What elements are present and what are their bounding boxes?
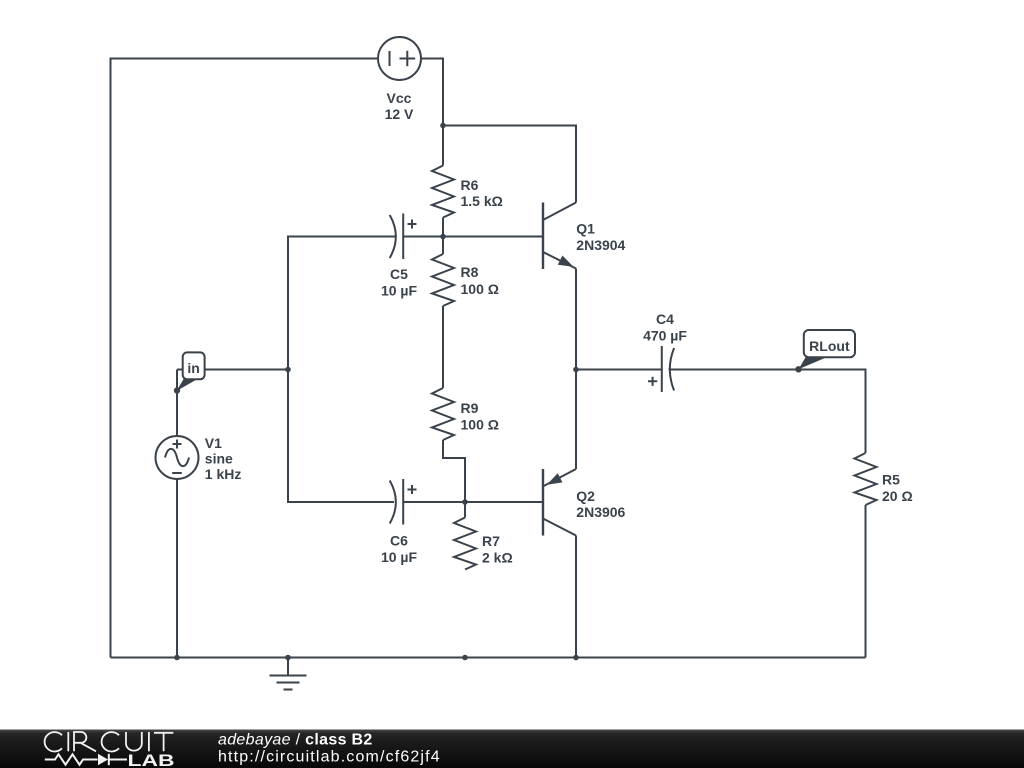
svg-text:adebayae / class B2: adebayae / class B2: [218, 732, 373, 749]
wire: [403, 236, 543, 238]
node junction output emitters: [573, 367, 579, 373]
label Q2 2N3906: [576, 488, 625, 520]
label C5 10 µF: [381, 266, 418, 299]
footer bar: [0, 730, 1024, 768]
label R6 1.5 kΩ: [461, 177, 503, 209]
svg-text:C5: C5: [390, 266, 408, 282]
wire: [443, 440, 465, 518]
svg-text:Q2: Q2: [576, 488, 595, 504]
wire: [575, 536, 577, 658]
node flag in: [174, 352, 205, 393]
wire: [669, 370, 866, 454]
resistor R9: [432, 388, 454, 440]
wire: [177, 369, 288, 371]
wire: [575, 370, 577, 470]
svg-text:R5: R5: [882, 472, 900, 488]
svg-text:R8: R8: [461, 264, 479, 280]
svg-text:10 µF: 10 µF: [381, 549, 418, 565]
wire: [442, 306, 444, 388]
svg-text:in: in: [187, 360, 199, 376]
node junction R6/R8/C5: [440, 234, 446, 240]
svg-text:2N3906: 2N3906: [576, 504, 625, 520]
wire: [176, 370, 178, 437]
resistor R7: [454, 518, 476, 570]
wire: [403, 501, 543, 503]
svg-text:Vcc: Vcc: [387, 90, 412, 106]
transistor Q1: [443, 203, 576, 270]
CircuitLab logo CIRCUIT: [45, 732, 174, 752]
capacitor C4: [648, 346, 674, 392]
svg-text:http://circuitlab.com/cf62jf4: http://circuitlab.com/cf62jf4: [218, 749, 441, 766]
svg-text:C4: C4: [656, 311, 674, 327]
svg-text:LAB: LAB: [128, 752, 175, 768]
wire: [576, 369, 662, 371]
svg-text:1 kHz: 1 kHz: [205, 466, 242, 482]
svg-text:10 µF: 10 µF: [381, 283, 418, 299]
node flag RLout: [795, 330, 855, 372]
node junction V1 ground: [174, 655, 180, 661]
label R8 100 Ω: [461, 264, 499, 297]
svg-text:V1: V1: [205, 435, 222, 451]
svg-text:R9: R9: [461, 400, 479, 416]
wire: [111, 59, 379, 658]
node junction in branch: [285, 367, 291, 373]
capacitor C6: [390, 479, 417, 525]
wire: [288, 237, 396, 503]
resistor R6: [432, 166, 454, 218]
resistor R8: [432, 254, 454, 306]
label R9 100 Ω: [461, 400, 499, 433]
svg-text:20 Ω: 20 Ω: [882, 488, 913, 504]
wire: [111, 657, 866, 659]
wire: [865, 505, 867, 658]
svg-text:2N3904: 2N3904: [576, 237, 625, 253]
node junction Q2 collector ground: [573, 655, 579, 661]
CircuitLab logo resistor-diode glyph: [45, 754, 127, 765]
svg-text:2 kΩ: 2 kΩ: [482, 550, 513, 566]
svg-text:1.5 kΩ: 1.5 kΩ: [461, 193, 503, 209]
node junction R9/R7/C6: [462, 499, 468, 505]
label R5 20 Ω: [882, 472, 913, 505]
resistor R5: [855, 453, 877, 505]
voltage source V1: [156, 436, 199, 479]
svg-text:12 V: 12 V: [385, 106, 414, 122]
svg-text:R7: R7: [482, 533, 500, 549]
label Vcc 12 V: [385, 90, 414, 122]
transistor Q2: [543, 469, 576, 536]
capacitor C5: [390, 214, 417, 260]
svg-text:100 Ω: 100 Ω: [461, 281, 499, 297]
svg-text:Q1: Q1: [576, 221, 595, 237]
svg-text:RLout: RLout: [809, 338, 850, 354]
svg-text:sine: sine: [205, 451, 233, 467]
wire: [422, 59, 444, 166]
label C6 10 µF: [381, 533, 418, 566]
node junction Vcc rail: [440, 123, 446, 129]
ground: [270, 658, 307, 690]
label V1 sine 1 kHz: [205, 435, 242, 482]
wire: [176, 479, 178, 658]
label Q1 2N3904: [576, 221, 625, 254]
svg-text:C6: C6: [390, 533, 408, 549]
voltage source Vcc: [378, 37, 421, 80]
svg-text:R6: R6: [461, 177, 479, 193]
svg-text:100 Ω: 100 Ω: [461, 417, 499, 433]
label R7 2 kΩ: [482, 533, 513, 566]
node junction ground: [285, 655, 291, 661]
label C4 470 µF: [643, 311, 687, 344]
node junction R7 ground: [462, 655, 468, 661]
wire: [443, 126, 576, 203]
wire: [442, 218, 444, 255]
svg-text:470 µF: 470 µF: [643, 328, 687, 344]
wire: [575, 269, 577, 370]
